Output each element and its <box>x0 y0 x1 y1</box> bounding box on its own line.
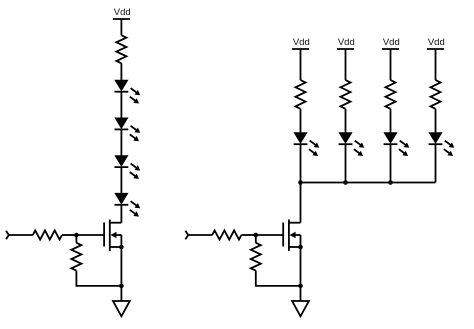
junction M1 source <box>119 245 124 250</box>
wire R4 to D5 <box>300 109 302 133</box>
wire anode rail <box>301 182 436 184</box>
resistor R1 <box>116 35 126 63</box>
power Vdd left <box>113 7 131 19</box>
LED D5 <box>294 133 320 156</box>
LED D1 <box>115 80 141 103</box>
LED D8 <box>429 133 455 156</box>
junction gate node right <box>254 233 259 238</box>
resistor R5 <box>341 80 351 109</box>
wire M2 source to ground <box>300 247 302 301</box>
resistor R7 <box>431 80 441 109</box>
junction rail branch3 <box>388 180 393 185</box>
wire D1 to D2 <box>120 92 122 118</box>
svg-text:Vdd: Vdd <box>293 37 310 48</box>
wire gate node to R9 <box>255 235 257 243</box>
resistor R8 <box>212 230 241 239</box>
ground left <box>113 301 130 316</box>
resistor R6 <box>386 80 396 109</box>
wire D3 to D4 <box>120 167 122 193</box>
svg-text:Vdd: Vdd <box>338 37 355 48</box>
power Vdd branch 4 <box>427 37 445 49</box>
power Vdd branch 2 <box>337 37 355 49</box>
junction source-R3 tie left <box>119 284 124 289</box>
resistor R9 <box>251 243 261 271</box>
wire R3 to source rail <box>76 271 121 286</box>
resistor R3 <box>71 243 81 271</box>
wire D6 to rail <box>345 144 347 182</box>
wire Vdd to R1 <box>120 19 122 35</box>
wire D7 to rail <box>390 144 392 182</box>
wire Vdd to R4 <box>300 49 302 80</box>
junction M2 source <box>298 245 303 250</box>
wire R7 to D8 <box>435 109 437 133</box>
wire Vdd to R5 <box>345 49 347 80</box>
wire D2 to D3 <box>120 129 122 155</box>
ground right <box>292 301 309 316</box>
resistor R2 <box>33 230 62 239</box>
LED D3 <box>115 156 141 179</box>
input terminal IN2 <box>185 231 188 239</box>
junction source-R9 tie right <box>298 284 303 289</box>
NMOS transistor M1 <box>104 220 121 252</box>
wire gate node to M2 gate <box>256 234 283 236</box>
input terminal IN1 <box>6 231 9 239</box>
wire rail to M2 drain <box>300 183 302 223</box>
wire Vdd to R7 <box>435 49 437 80</box>
wire D4 to M1 drain <box>120 205 122 223</box>
LED D6 <box>339 133 365 156</box>
wire D5 to rail <box>300 144 302 182</box>
wire R8 to gate node <box>241 234 255 236</box>
wire gate node to R3 <box>75 235 77 243</box>
resistor R4 <box>296 80 306 109</box>
wire Vdd to R6 <box>390 49 392 80</box>
svg-text:Vdd: Vdd <box>383 37 400 48</box>
junction gate node left <box>74 233 79 238</box>
wire IN1 to R2 <box>9 234 33 236</box>
power Vdd branch 1 <box>292 37 310 49</box>
wire D8 to rail <box>435 144 437 182</box>
NMOS transistor M2 <box>283 220 300 252</box>
wire R6 to D7 <box>390 109 392 133</box>
wire R9 to source rail <box>256 271 301 286</box>
junction rail branch2 <box>343 180 348 185</box>
svg-text:Vdd: Vdd <box>114 7 131 18</box>
LED D2 <box>115 118 141 141</box>
power Vdd branch 3 <box>382 37 400 49</box>
wire R5 to D6 <box>345 109 347 133</box>
svg-text:Vdd: Vdd <box>428 37 445 48</box>
wire R1 to D1 <box>120 63 122 80</box>
LED D7 <box>384 133 410 156</box>
wire R2 to gate node <box>62 234 76 236</box>
wire M1 source to ground <box>120 247 122 301</box>
wire IN2 to R8 <box>188 234 212 236</box>
LED D4 <box>115 193 141 216</box>
wire gate node to M1 gate <box>76 234 104 236</box>
junction rail-drain <box>298 180 303 185</box>
